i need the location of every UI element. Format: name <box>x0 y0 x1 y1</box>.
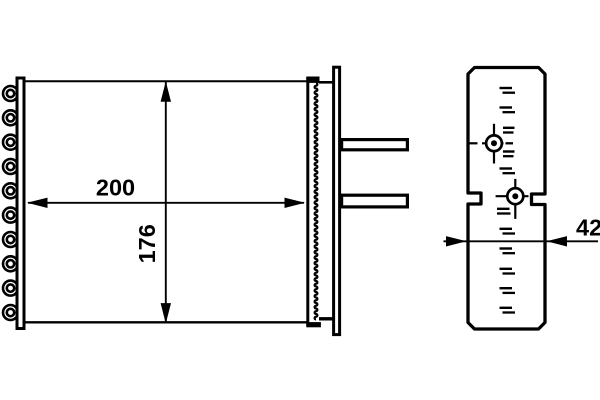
dimension 200 right arrow <box>285 198 306 208</box>
core top line <box>24 80 308 82</box>
tube end circle 6 <box>3 208 18 223</box>
crosshair fastener 1 <box>469 124 514 164</box>
tube end circle 8 <box>3 256 18 271</box>
fin dash pair 6 <box>497 209 511 214</box>
svg-text:42: 42 <box>576 214 600 240</box>
bottom connector line <box>319 317 334 320</box>
side view body outline <box>468 68 545 330</box>
dimension 176 top arrow <box>161 81 171 102</box>
tube end circle 3 <box>3 135 18 150</box>
tube end circle 2 <box>3 110 18 125</box>
dimension 176 line <box>165 82 167 323</box>
fin dash pair 5 <box>500 169 516 174</box>
tube end circle 9 <box>3 281 18 296</box>
tube end circle 7 <box>3 232 18 247</box>
tube end circle 5 <box>3 183 18 198</box>
dimension 200 left arrow <box>27 198 48 208</box>
top connector line <box>319 81 334 84</box>
fin dash pair 8 <box>500 249 516 254</box>
tube end circle 10 <box>3 305 18 320</box>
tank header bar <box>334 67 340 334</box>
fin dash pair 2 <box>500 108 516 113</box>
fin dash pair 7 <box>500 229 516 234</box>
fin dash pair 9 <box>500 269 516 274</box>
core bottom line <box>24 321 308 323</box>
svg-text:200: 200 <box>96 175 135 201</box>
fin dash pair 3 <box>503 128 515 133</box>
lower pipe <box>342 195 408 207</box>
fin dash pair 4 <box>503 152 515 157</box>
corrugated fin squiggle <box>315 83 318 320</box>
right end plate top cap <box>306 77 319 83</box>
right end plate line <box>306 77 309 326</box>
right end plate bottom cap <box>306 322 321 327</box>
tube end circle 1 <box>3 86 18 101</box>
left header plate bar <box>17 78 24 329</box>
dimension 200 line <box>28 202 304 204</box>
fin dash pair 1 <box>500 88 516 93</box>
crosshair fastener 2 <box>496 179 529 219</box>
dimension 42 line <box>444 240 599 242</box>
tube end circle 4 <box>3 159 18 174</box>
fin dash pair 11 <box>500 308 516 313</box>
upper pipe <box>342 140 408 150</box>
fin dash pair 10 <box>500 288 516 293</box>
dimension 42 right arrow <box>547 236 568 246</box>
svg-text:176: 176 <box>134 224 160 263</box>
dimension 176 bottom arrow <box>161 303 171 324</box>
dimension 42 left arrow <box>446 236 467 246</box>
